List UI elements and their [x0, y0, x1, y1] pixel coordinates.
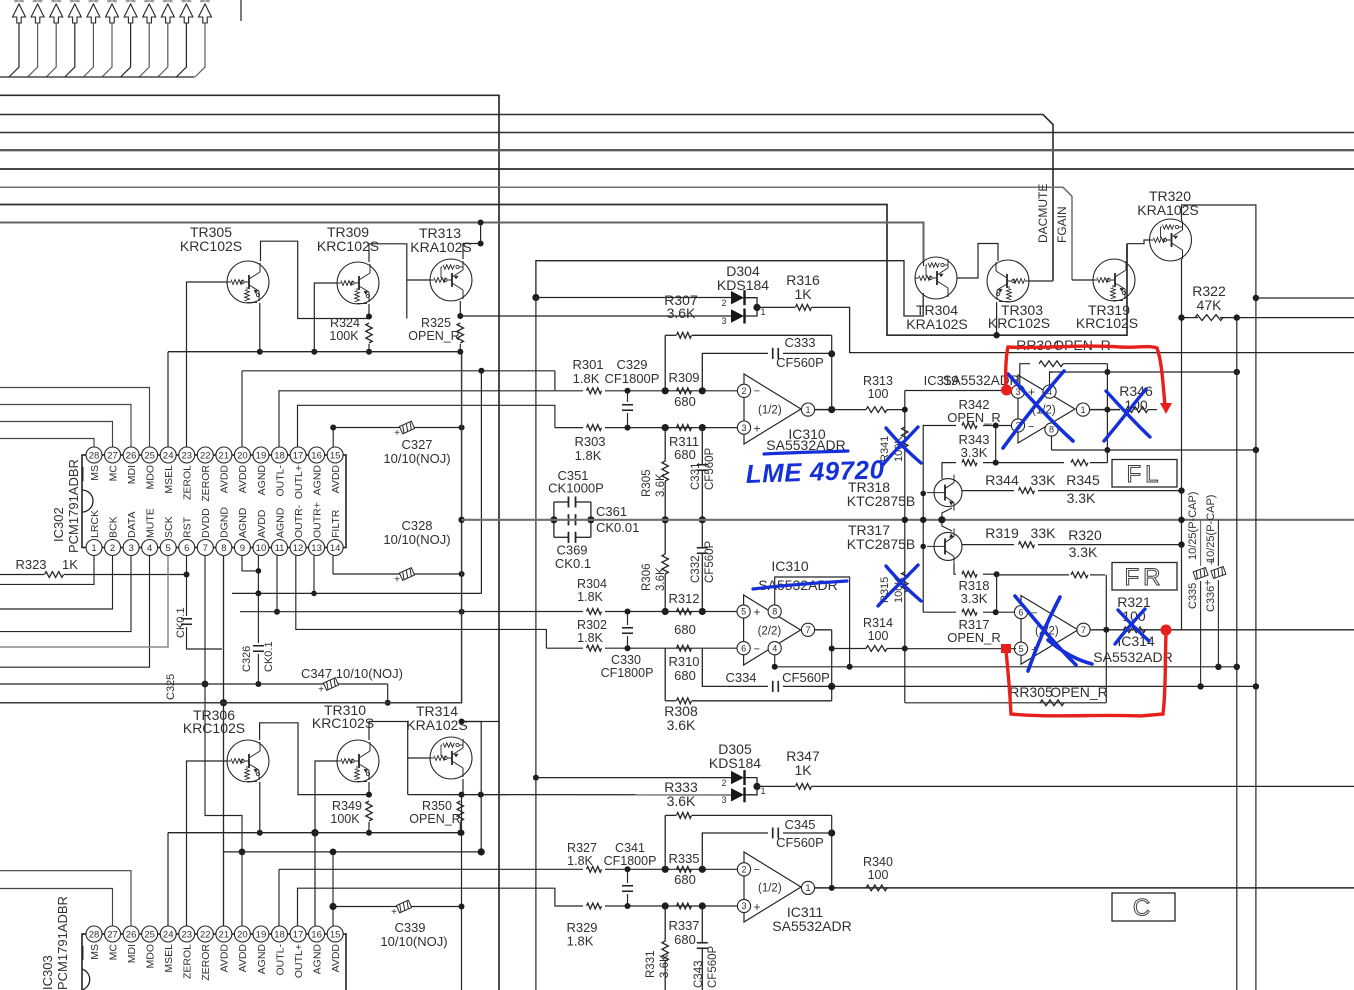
- wire TR317 emitter to rail: [942, 520, 952, 531]
- junction pin10 line: [255, 590, 261, 596]
- svg-text:R344: R344: [985, 472, 1019, 488]
- wire diode feed y=316: [460, 315, 731, 317]
- capacitor C328 10/10(NOJ): [333, 573, 462, 575]
- svg-text:100: 100: [868, 629, 889, 643]
- wire TR314 base: [408, 757, 430, 759]
- svg-text:AGND: AGND: [237, 507, 249, 538]
- svg-text:3.6K: 3.6K: [667, 305, 696, 321]
- capacitor C331 CF560P vertical: [699, 387, 706, 394]
- wire out y=629.8: [1090, 629, 1354, 631]
- svg-text:33K: 33K: [1031, 472, 1057, 488]
- blue strike SA5532ADR (IC310-B): [753, 581, 847, 589]
- IC303 pin 24: [160, 926, 176, 942]
- svg-text:MDI: MDI: [126, 944, 138, 963]
- svg-text:LME 49720: LME 49720: [745, 454, 885, 489]
- connector bus stub: [0, 76, 195, 78]
- svg-text:R331: R331: [645, 951, 657, 979]
- diode D304 KDS184: [731, 291, 744, 304]
- wire x=904.8: [904, 391, 906, 703]
- red correction loop (top): [1006, 346, 1165, 405]
- wire + input y=390.5: [905, 390, 1014, 392]
- wire TR305 collector: [261, 241, 370, 318]
- svg-text:R320: R320: [1068, 527, 1102, 543]
- svg-text:3.3K: 3.3K: [1067, 490, 1096, 506]
- svg-text:22: 22: [200, 929, 211, 940]
- svg-text:DATA: DATA: [126, 512, 138, 538]
- IC302 PCM1791ADBR body: [82, 455, 346, 548]
- svg-text:MS: MS: [89, 944, 101, 960]
- resistor R315 100K (vert): [902, 572, 908, 592]
- wire TR313 base: [407, 279, 430, 281]
- wire y=593.4: [232, 592, 481, 594]
- IC303 pin 16: [309, 926, 325, 942]
- wire y=794.6 to diodes: [408, 794, 731, 796]
- svg-text:1: 1: [805, 405, 810, 415]
- resistor R313 100: [866, 407, 887, 413]
- svg-text:1.8K: 1.8K: [577, 631, 603, 645]
- wire TR319 base to FGAIN: [1072, 279, 1093, 281]
- capacitor C329 CF1800P: [625, 388, 631, 394]
- svg-text:MC: MC: [107, 944, 119, 961]
- IC303 pin 15: [327, 926, 343, 942]
- resistor R309 680: [677, 388, 692, 394]
- channel box FL: [1112, 460, 1177, 488]
- wire TR303 emitter down: [996, 302, 998, 335]
- svg-text:100K: 100K: [329, 329, 359, 343]
- svg-text:28: 28: [89, 450, 100, 461]
- wire pin4 power route: [774, 655, 776, 667]
- svg-text:MSEL: MSEL: [163, 944, 175, 973]
- svg-text:KRC102S: KRC102S: [1076, 315, 1138, 331]
- svg-text:R309: R309: [668, 370, 699, 385]
- IC302 pin 27: [105, 447, 121, 463]
- wire TR314 collector down: [462, 779, 464, 795]
- IC303 pin 19: [253, 926, 269, 942]
- gray rail y=519.8: [462, 519, 1354, 521]
- svg-text:CK1000P: CK1000P: [548, 481, 604, 496]
- wire bus y=114.5 (DACMUTE): [0, 115, 1053, 281]
- IC302 pin 1: [86, 540, 102, 556]
- svg-text:C330: C330: [611, 653, 641, 667]
- svg-text:OPEN_R: OPEN_R: [947, 630, 1000, 645]
- resistor R345 3.3K: [1071, 460, 1088, 466]
- svg-text:R345: R345: [1066, 472, 1100, 488]
- channel box C: [1112, 893, 1175, 921]
- wire fb vertical x=831.7: [831, 335, 833, 409]
- wire TR304 emitter long route y=260.7: [536, 261, 923, 316]
- svg-text:PCM1791ADBR: PCM1791ADBR: [55, 896, 70, 990]
- blue strike SA5532ADR (IC310-A): [764, 451, 848, 454]
- svg-text:28: 28: [89, 929, 100, 940]
- resistor R349 100K: [366, 801, 372, 821]
- svg-text:KTC2875B: KTC2875B: [847, 493, 915, 509]
- svg-text:20: 20: [237, 450, 248, 461]
- svg-text:1: 1: [760, 786, 765, 796]
- svg-text:RST: RST: [182, 516, 194, 538]
- IC302 pin 13: [309, 540, 325, 556]
- svg-text:2: 2: [741, 865, 746, 875]
- wire x=535.9 down: [535, 298, 537, 778]
- wire pin12: [296, 556, 547, 649]
- svg-text:+: +: [754, 422, 761, 436]
- svg-text:680: 680: [674, 872, 696, 887]
- svg-text:C343: C343: [693, 961, 705, 989]
- IC303 pin 17: [290, 926, 306, 942]
- capacitor C345 CF560P: [702, 833, 768, 869]
- svg-text:C331: C331: [690, 463, 702, 491]
- resistor R312 680: [677, 609, 692, 615]
- wire pin8 power route: [775, 577, 850, 667]
- svg-text:MDO: MDO: [144, 944, 156, 969]
- svg-text:680: 680: [674, 447, 696, 462]
- wire TR304 right to TR303: [957, 244, 998, 279]
- capacitor C347 10/10(NOJ): [0, 683, 388, 685]
- resistor R325 OPEN_R: [457, 323, 463, 343]
- wire TR309 collector: [369, 244, 407, 319]
- capacitor C343 CF560P vertical: [699, 866, 706, 873]
- svg-text:AVDD: AVDD: [237, 465, 249, 494]
- svg-text:SCK: SCK: [163, 516, 175, 538]
- svg-text:10/10(NOJ): 10/10(NOJ): [383, 532, 450, 547]
- svg-text:CF560P: CF560P: [776, 835, 824, 850]
- svg-text:13: 13: [311, 543, 322, 554]
- svg-text:OUTL-: OUTL-: [274, 943, 286, 975]
- wire pin14 FILTR to C328: [332, 556, 334, 574]
- diode D305 KDS184: [731, 771, 744, 784]
- svg-text:18: 18: [274, 929, 285, 940]
- resistor R344 33K: [962, 490, 1014, 492]
- wire y=611.7 R304 feed: [240, 611, 462, 613]
- svg-text:CK0.01: CK0.01: [596, 520, 639, 535]
- svg-text:680: 680: [674, 622, 696, 637]
- svg-text:20: 20: [237, 929, 248, 940]
- IC302 pin 23: [179, 447, 195, 463]
- op-amp IC311 (1/2): [744, 852, 801, 922]
- transistor TR313 KRA102S: [430, 259, 472, 301]
- svg-text:1K: 1K: [62, 557, 78, 572]
- wire - input y=425.5 / R342: [923, 425, 956, 427]
- wire bus y=204.5: [0, 205, 1127, 336]
- svg-text:8: 8: [221, 543, 226, 554]
- svg-text:1K: 1K: [794, 286, 812, 302]
- svg-text:OUTL+: OUTL+: [293, 465, 305, 499]
- wire TR310 collector: [369, 722, 408, 795]
- svg-text:15: 15: [330, 450, 341, 461]
- svg-text:10/25(P-CAP): 10/25(P-CAP): [1187, 492, 1199, 560]
- wire bus y=132.5: [0, 132, 1354, 134]
- svg-text:8: 8: [772, 607, 777, 617]
- IC303 pin 25: [142, 926, 158, 942]
- svg-text:FR: FR: [1125, 564, 1165, 591]
- junction R323/pin6: [184, 572, 190, 578]
- svg-text:3: 3: [741, 901, 746, 911]
- svg-text:C336: C336: [1205, 586, 1217, 612]
- svg-text:5: 5: [741, 607, 746, 617]
- svg-text:21: 21: [219, 450, 230, 461]
- svg-text:R313: R313: [863, 374, 893, 388]
- wire TR317 base: [923, 545, 926, 547]
- svg-text:DVDD: DVDD: [200, 508, 212, 538]
- svg-text:3.3K: 3.3K: [961, 445, 988, 460]
- wire supply y=450: [1051, 436, 1053, 450]
- svg-text:3: 3: [721, 795, 726, 805]
- svg-text:(2/2): (2/2): [758, 626, 782, 638]
- svg-text:DACMUTE: DACMUTE: [1036, 184, 1050, 243]
- RR304 feedback: [1020, 364, 1030, 385]
- svg-text:3: 3: [721, 316, 726, 326]
- wire + input y=648.7: [905, 648, 1016, 650]
- svg-text:KRC102S: KRC102S: [183, 720, 245, 736]
- transistor TR309 KRC102S: [337, 262, 379, 304]
- resistor R341 100K (vert): [902, 427, 908, 447]
- wire emitter rail y=351.7: [168, 351, 462, 353]
- svg-text:24: 24: [163, 929, 174, 940]
- wire TR313 emitter: [459, 301, 461, 316]
- capacitor C334 CF560P: [702, 648, 768, 686]
- svg-text:R312: R312: [668, 591, 699, 606]
- svg-text:R310: R310: [668, 654, 699, 669]
- svg-text:10/10(NOJ): 10/10(NOJ): [383, 451, 450, 466]
- wire pin15 IC303 vertical: [332, 852, 334, 926]
- svg-text:CF1800P: CF1800P: [605, 371, 660, 386]
- wire pin6 RST + C325: [186, 556, 188, 616]
- wire op-amp A out: [815, 409, 832, 411]
- RR305 feedback: [905, 702, 1107, 704]
- svg-text:11: 11: [275, 543, 285, 554]
- IC302 pin 10: [253, 540, 269, 556]
- IC302 pin 28: [86, 447, 102, 463]
- svg-text:5: 5: [166, 543, 171, 554]
- svg-text:16: 16: [311, 450, 322, 461]
- capacitor C339 10/10(NOJ): [329, 903, 336, 910]
- svg-text:OPEN_R: OPEN_R: [408, 329, 459, 343]
- svg-text:ZEROR: ZEROR: [200, 465, 212, 502]
- wire pin2: [0, 556, 113, 609]
- IC302 pin 17: [290, 447, 306, 463]
- svg-text:3.6K: 3.6K: [659, 954, 671, 978]
- svg-text:AVDD: AVDD: [330, 944, 342, 973]
- IC303 pin 28: [86, 926, 102, 942]
- svg-text:C339: C339: [394, 920, 425, 935]
- svg-text:+: +: [394, 575, 400, 586]
- svg-text:R303: R303: [574, 434, 605, 449]
- svg-text:OUTR-: OUTR-: [293, 504, 305, 538]
- svg-text:ZEROR: ZEROR: [200, 944, 212, 981]
- svg-text:4: 4: [147, 543, 152, 554]
- wire TR320 base: [1127, 240, 1150, 244]
- wire pin8 DGND down to IC303 pin21: [223, 556, 225, 927]
- wire pin9: [242, 556, 258, 571]
- svg-text:C326: C326: [241, 646, 253, 672]
- IC302 pin 2: [105, 540, 121, 556]
- svg-text:−: −: [754, 386, 760, 398]
- svg-text:2: 2: [721, 298, 726, 308]
- wire minus input y=869.3: [279, 868, 583, 870]
- svg-text:2: 2: [741, 386, 746, 396]
- resistor R340 100: [866, 885, 887, 891]
- wire pin17 OUTL+: [298, 405, 555, 447]
- resistor R350 OPEN_R: [457, 801, 463, 821]
- svg-text:C345: C345: [784, 817, 815, 832]
- svg-text:1: 1: [760, 307, 765, 317]
- blue X over R321: [1115, 609, 1149, 644]
- svg-text:7: 7: [203, 543, 208, 554]
- wire pin18 OUTL-: [279, 391, 583, 447]
- wire TR318 base: [923, 492, 926, 494]
- resistor R324 100K: [366, 323, 372, 343]
- svg-text:7: 7: [805, 625, 810, 635]
- IC302 pin 26: [123, 447, 139, 463]
- svg-text:1.8K: 1.8K: [577, 590, 603, 604]
- svg-text:(1/2): (1/2): [758, 883, 782, 895]
- svg-text:KRA102S: KRA102S: [406, 717, 467, 733]
- blue X over R346: [1104, 389, 1150, 441]
- resistor R329 1.8K: [587, 903, 602, 909]
- svg-text:C332: C332: [690, 556, 702, 584]
- resistor R343 3.3K: [942, 463, 956, 479]
- svg-text:AGND: AGND: [256, 944, 268, 975]
- IC302 pin 6: [179, 540, 195, 556]
- svg-text:OUTL+: OUTL+: [293, 944, 305, 978]
- svg-text:R319: R319: [985, 525, 1019, 541]
- op-amp IC310 (2/2): [744, 595, 801, 665]
- svg-text:14: 14: [330, 543, 341, 554]
- svg-text:C341: C341: [615, 841, 645, 855]
- wire pin13: [313, 556, 315, 594]
- svg-text:R304: R304: [577, 577, 607, 591]
- capacitor C326 CK0.1: [253, 647, 264, 651]
- IC303 pin 18: [272, 926, 288, 942]
- svg-text:KRA102S: KRA102S: [906, 316, 967, 332]
- IC303 pin 21: [216, 926, 232, 942]
- svg-text:AGND: AGND: [311, 944, 323, 975]
- svg-text:+: +: [754, 605, 761, 619]
- wire TR303 base to DACMUTE: [1029, 280, 1053, 282]
- svg-text:6: 6: [184, 543, 189, 554]
- IC303 pin 26: [123, 926, 139, 942]
- wire TR313 collector: [463, 244, 481, 260]
- svg-text:KDS184: KDS184: [709, 755, 761, 771]
- wire TR305 emitter: [259, 303, 261, 352]
- svg-text:FGAIN: FGAIN: [1055, 206, 1069, 243]
- svg-text:R323: R323: [15, 557, 46, 572]
- IC302 pin 3: [123, 540, 139, 556]
- svg-text:MC: MC: [107, 465, 119, 482]
- stair wires to IC303 pins: [0, 871, 131, 926]
- op-amp IC313 (2/2) crossed: [1021, 596, 1078, 665]
- svg-text:R314: R314: [863, 616, 893, 630]
- wire TR309 base: [314, 283, 337, 352]
- wire fb vertical x=831.7 (IC311): [831, 815, 833, 888]
- resistor R308 3.6K: [664, 648, 666, 701]
- svg-text:(1/2): (1/2): [758, 405, 782, 417]
- svg-text:SA5532ADR: SA5532ADR: [772, 918, 851, 934]
- wire TR309 emitter to R324: [368, 304, 370, 319]
- svg-text:FILTR: FILTR: [330, 509, 342, 538]
- svg-text:BCK: BCK: [107, 516, 119, 538]
- svg-text:ZEROL: ZEROL: [182, 944, 194, 979]
- resistor R314 100: [832, 648, 866, 650]
- svg-text:MDO: MDO: [144, 465, 156, 490]
- svg-text:R349: R349: [332, 799, 362, 813]
- svg-text:18: 18: [274, 450, 285, 461]
- svg-text:C333: C333: [784, 335, 815, 350]
- svg-text:CF560P: CF560P: [704, 447, 716, 490]
- svg-text:OUTR+: OUTR+: [311, 502, 323, 538]
- capacitor C336 10/25(P-CAP): [1217, 520, 1219, 566]
- svg-text:6: 6: [741, 643, 746, 653]
- resistor R320 (3.3K) on fb line: [997, 574, 1064, 576]
- blue X over op-amp IC312: [1003, 371, 1073, 448]
- wire pin15 AVDD to C327: [332, 428, 334, 448]
- IC302 pin 14: [327, 540, 343, 556]
- svg-text:27: 27: [107, 929, 118, 940]
- resistor R302 1.8K: [587, 645, 602, 651]
- svg-text:KRC102S: KRC102S: [317, 238, 379, 254]
- IC302 pin 19: [253, 447, 269, 463]
- svg-text:MS: MS: [89, 465, 101, 481]
- svg-text:100K: 100K: [330, 812, 360, 826]
- svg-text:6: 6: [1018, 607, 1023, 617]
- svg-text:AVDD: AVDD: [256, 509, 268, 538]
- wire pin10 + C326: [257, 556, 259, 643]
- svg-text:C: C: [1133, 895, 1154, 922]
- wire bus y=187.3 (FGAIN): [0, 187, 1072, 280]
- svg-text:24: 24: [163, 450, 174, 461]
- IC302 pin 20: [234, 447, 250, 463]
- wire AVDD rail vertical x=461.6: [458, 517, 464, 523]
- wire TR306 base to pin23: [187, 761, 228, 926]
- svg-text:19: 19: [256, 450, 267, 461]
- svg-text:R302: R302: [577, 618, 607, 632]
- svg-text:CK0.1: CK0.1: [555, 556, 591, 571]
- resistor R303 1.8K: [555, 427, 583, 429]
- wire TR306 collector: [260, 723, 369, 795]
- IC302 pin 25: [142, 447, 158, 463]
- wire bus y=222.5 (gray): [0, 223, 924, 263]
- IC302 pin 22: [197, 447, 213, 463]
- wire op-amp out y=887.9: [815, 887, 1354, 889]
- resistor R307 3.6K feedback: [664, 335, 666, 391]
- transistor TR310 KRC102S: [337, 740, 379, 782]
- transistor TR319 KRC102S: [1093, 259, 1135, 301]
- transistor TR317 KTC2875B: [927, 528, 962, 564]
- wire mute line y=702.7: [0, 352, 462, 703]
- wire pin3: [0, 556, 131, 632]
- op-amp IC312 (1/2) crossed: [1018, 375, 1075, 443]
- svg-text:R301: R301: [572, 357, 603, 372]
- IC302 pin 16: [309, 447, 325, 463]
- svg-text:3.6K: 3.6K: [655, 473, 667, 497]
- resistor R318 3.3K: [954, 564, 956, 574]
- red correction loop (bottom): [1006, 634, 1166, 716]
- capacitor C332 CF560P vertical: [701, 520, 703, 548]
- svg-text:SA5532ADR: SA5532ADR: [1093, 649, 1172, 665]
- resistor R333 3.6K: [664, 815, 666, 869]
- wire AVDD rail bottom x=461.5: [461, 795, 463, 990]
- op-amp IC310 (1/2): [744, 374, 801, 444]
- resistor R337 680: [677, 903, 692, 909]
- wire x=480.8 up: [462, 722, 482, 852]
- wire bus y=150 (gray): [0, 149, 1354, 151]
- svg-text:3.3K: 3.3K: [1069, 544, 1098, 560]
- IC302 pin 8: [216, 540, 232, 556]
- resistor R335 680: [677, 866, 692, 872]
- wire TR320 emitter down x=1181.5: [1181, 259, 1183, 630]
- resistor R323 1K: [0, 574, 44, 576]
- wire long y=666.8: [775, 666, 1237, 668]
- svg-text:R327: R327: [567, 841, 597, 855]
